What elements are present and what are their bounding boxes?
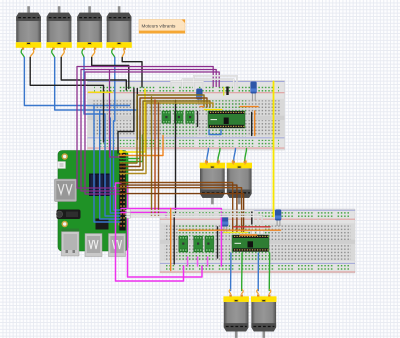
- wire blue M2 to BB1: [55, 58, 138, 111]
- wire orange long horizontal BB2: [179, 229, 281, 231]
- small module A3 on BB1: [186, 111, 195, 123]
- wire grey staple st2 BB1 top: [182, 79, 233, 89]
- wire blue bundle b2 to GPIO: [100, 110, 120, 219]
- yellow connector blob at GPIO pin1: [119, 150, 123, 154]
- wire blue to motor M5: [207, 149, 209, 161]
- wire green curl motor M3: [82, 50, 84, 58]
- wire blue to motor M8: [257, 253, 259, 291]
- wire yellow GPIO to BB1: [120, 89, 145, 152]
- wire grey staple st1 BB1 top: [171, 82, 203, 90]
- mounting hole bottom-right: [118, 221, 124, 227]
- wire black M2: [61, 58, 126, 91]
- wire green curl motor M4: [112, 50, 115, 58]
- wire orange curls motor M5 terminals: [205, 160, 219, 164]
- wire blue M4 down: [114, 58, 115, 122]
- capacitor C2 on BB1: [250, 82, 256, 102]
- driver module U2 on BB2: [232, 235, 269, 252]
- wire blue U below driver U1: [209, 130, 221, 135]
- wire orange curl motor M1: [30, 50, 34, 58]
- small module A1 on BB1: [162, 111, 171, 123]
- BB1 top rail holes: [94, 85, 279, 92]
- wire orange curls motor M7 terminals: [229, 290, 243, 294]
- wire orange vertical BB2 left: [170, 209, 172, 271]
- small chip: [96, 219, 109, 230]
- wire green to motor M6: [245, 149, 247, 161]
- wire pink stub s3 BB2: [207, 257, 209, 266]
- small module B3 on BB2: [205, 236, 214, 252]
- small module B1 on BB2: [179, 236, 188, 252]
- wire blue bundle b3 to GPIO: [105, 114, 120, 216]
- BB1 field holes top bank: [92, 100, 281, 116]
- driver module U1 on BB1: [208, 111, 245, 128]
- capacitor C1 on BB1: [196, 89, 202, 106]
- wire brown long V3 to BB2: [158, 103, 160, 217]
- wire purple p2 GPIO to BB1: [81, 70, 216, 192]
- mounting hole top-right: [118, 153, 124, 159]
- motor M4: [106, 6, 132, 50]
- wire green to motor M7: [241, 253, 243, 291]
- wire green to motor M8: [268, 253, 270, 291]
- BB1 bottom blue rail line: [88, 136, 285, 139]
- wire olive long V1 to BB2: [151, 97, 153, 217]
- wire orange stub right of U1: [240, 106, 258, 108]
- motor M6 (middle right, inverted): [227, 161, 253, 205]
- wire brown B4 GPIO to BB2: [120, 194, 244, 232]
- breadboard BB1: [88, 81, 285, 151]
- wire orange curls motor M6 terminals: [232, 160, 246, 164]
- display/HDMI connector: [55, 179, 77, 202]
- motor M2: [46, 6, 72, 50]
- wire grey gr2 GPIO to BB2: [126, 214, 258, 234]
- wire orange curl motor M3: [92, 50, 95, 58]
- wire green curl motor M2: [52, 50, 55, 58]
- audio jack: [57, 210, 81, 220]
- svg-text:Moteurs vibrants: Moteurs vibrants: [142, 24, 177, 29]
- breadboard BB2: [160, 209, 355, 273]
- BB1 bottom rail holes: [94, 140, 279, 147]
- wire yellow segment above U1: [205, 109, 222, 111]
- black jumper stub BB1 top: [226, 87, 228, 96]
- wire purple p1 GPIO to BB1: [77, 67, 213, 189]
- wire black BB2 top stub: [251, 212, 253, 224]
- wire green GPIO g1: [120, 131, 140, 159]
- wire brown B1 GPIO to BB2: [120, 183, 233, 232]
- wire blue bundle b5 to GPIO: [114, 121, 121, 210]
- mounting hole top-left: [61, 153, 67, 159]
- small module A2 on BB1: [174, 111, 183, 123]
- BB2 top rail holes: [166, 212, 349, 219]
- wire black M1: [30, 58, 103, 143]
- wire pink stub s1 BB2: [187, 257, 189, 266]
- wire olive W1 GPIO to driver U1: [120, 95, 204, 163]
- BB1 top blue rail line: [88, 80, 285, 83]
- wire black BB2 mid jumper: [217, 227, 219, 258]
- BB2 bottom blue rail line: [160, 262, 355, 265]
- BB1 top red rail line: [88, 91, 285, 94]
- capacitor C4 on BB2: [275, 210, 281, 227]
- motor M1: [16, 6, 42, 50]
- BB2 top blue rail line: [160, 209, 355, 212]
- wire orange curl motor M4: [122, 50, 124, 58]
- wire blue to motor M6: [234, 149, 236, 161]
- wire blue to motor M7: [230, 253, 232, 291]
- NOTE label "Moteurs vibrants": [139, 20, 185, 34]
- wire black pair b: [136, 89, 138, 140]
- raspberry pi board: [58, 151, 128, 252]
- pi status LED: [113, 186, 117, 190]
- BB2 top red rail line: [160, 218, 355, 221]
- wire black long mid vertical: [174, 101, 175, 265]
- wire brown W2 GPIO to driver U1: [120, 98, 207, 167]
- mounting hole bottom-left: [61, 221, 67, 227]
- wire purple p4: [110, 70, 120, 157]
- wire orange GPIO o1: [120, 136, 163, 156]
- ethernet port: [62, 232, 80, 257]
- wire black BB1 jumper: [197, 112, 199, 127]
- wire green GPIO g2: [120, 135, 143, 162]
- motor M3: [77, 6, 103, 50]
- PI: [55, 151, 129, 257]
- wire grey staple st3 BB1 top: [194, 76, 237, 89]
- wire blue M1 to BB1: [24, 58, 129, 106]
- wire brown B3 GPIO to BB2: [120, 188, 242, 232]
- yellow-green stub BB1 top: [223, 88, 225, 96]
- wire green curl motor M1: [21, 50, 24, 58]
- BREADBOARDS: [88, 81, 356, 274]
- wire orange curls motor M8 terminals: [257, 290, 271, 294]
- wire blue bundle b1 to GPIO: [94, 106, 120, 223]
- BB2 bottom red rail line: [160, 271, 355, 274]
- wire black pair a: [118, 89, 134, 154]
- wire yellow long vertical BB1 to BB2: [273, 82, 275, 217]
- wire orange vertical right of U1: [254, 111, 256, 136]
- wire grey gr1 GPIO to BB2: [126, 211, 254, 234]
- USB port 1: [85, 234, 102, 257]
- camera connector: [58, 162, 66, 169]
- wire yellow horizontal BB2: [224, 231, 248, 233]
- green dot columns near modules: [161, 100, 197, 113]
- BB2 bottom rail holes: [166, 265, 349, 272]
- motor M5 (middle left, inverted): [200, 161, 226, 205]
- wire green to motor M5: [218, 149, 220, 161]
- BB2 field holes bottom bank: [164, 244, 351, 260]
- wire black M4: [122, 58, 142, 88]
- USB port 2: [109, 234, 126, 257]
- small module B2 on BB2: [194, 236, 203, 252]
- GPIO header: [119, 152, 125, 231]
- wire orange horizontal 2 BB2: [240, 234, 257, 236]
- wire magenta m3 GPIO to BB2: [121, 209, 221, 267]
- wire olive W3 GPIO to driver U1: [120, 101, 210, 170]
- wire brown B2 GPIO to BB2: [120, 185, 237, 231]
- capacitor C3 on BB2: [222, 216, 228, 233]
- wire orange curl motor M2: [61, 50, 64, 58]
- BB1 bottom red rail line: [88, 147, 285, 150]
- motor M8 (bottom right, inverted): [251, 294, 277, 338]
- motor M7 (bottom left, inverted): [223, 294, 249, 338]
- wire red horizontal BB2: [234, 226, 270, 228]
- BB2 field holes top bank: [164, 224, 351, 240]
- wire magenta m1 GPIO to BB2: [116, 183, 184, 281]
- wire orange stub left of U1: [200, 106, 204, 108]
- wire grey gr3 GPIO to BB2: [126, 217, 262, 234]
- wire blue bundle b4 to GPIO: [110, 118, 120, 213]
- wire purple p3 GPIO to BB1: [85, 72, 219, 194]
- wire black right of driver U1: [251, 113, 253, 136]
- BB1 field holes bottom bank: [92, 120, 281, 136]
- SoC chips: [89, 174, 111, 197]
- wire blue M3 down: [84, 58, 105, 115]
- wire black M3: [92, 58, 129, 89]
- wire red-orange long V2 to BB2: [154, 100, 156, 217]
- wire pink stub s2 BB2: [197, 257, 199, 266]
- wire dark yellow W4 GPIO to driver U1: [120, 103, 213, 174]
- wire magenta m4 stub: [121, 213, 166, 218]
- wire yellow stub BB1 top-left: [89, 91, 113, 93]
- grey wire connectors: [127, 209, 264, 234]
- wire magenta m2 GPIO to BB2: [128, 186, 203, 277]
